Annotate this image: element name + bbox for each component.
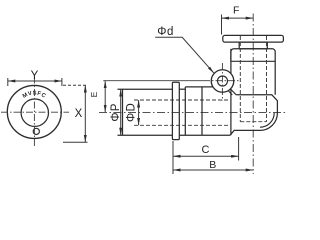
svg-text:C: C: [202, 144, 210, 156]
node left-view small hole: [33, 128, 39, 134]
wire hidden bore line bottom: [134, 124, 230, 126]
component orifice circle (Phi d): [211, 70, 234, 93]
dimension F: [222, 15, 254, 35]
component release collar (vertical port): [223, 35, 284, 42]
svg-text:ΦP: ΦP: [110, 102, 122, 121]
svg-text:B: B: [209, 159, 216, 171]
component release flange (horizontal port): [172, 82, 179, 139]
wire tube left end face: [122, 89, 124, 135]
node elbow block outline: [230, 130, 260, 135]
dimension E: [104, 81, 106, 113]
wire body seam: [201, 87, 203, 135]
node left-view horizontal centerline: [1, 111, 69, 113]
dimension PhiD: [138, 100, 140, 125]
node vertical port centerline: [252, 14, 254, 175]
wire block left edge lower: [230, 89, 232, 135]
node brand text MVSFC curved: [18, 91, 50, 106]
dimension PhiP: [120, 89, 122, 135]
node orifice circle horizontal centerline: [203, 80, 240, 82]
dimension Y: [8, 78, 62, 86]
svg-text:Φd: Φd: [157, 26, 174, 38]
node chamfer band under circle: [231, 89, 237, 95]
wire E top extension line: [103, 80, 203, 82]
wire block left edge upper: [230, 49, 232, 74]
wire tube bottom edge / body bottom edge: [118, 134, 173, 136]
node orifice circle vertical centerline: [221, 63, 223, 101]
svg-text:E: E: [89, 91, 99, 97]
wire hidden seat line: [240, 121, 266, 123]
component collet neck: [239, 42, 267, 49]
dimension C: [173, 137, 239, 174]
node elbow inner arc: [260, 113, 274, 127]
svg-text:ΦD: ΦD: [125, 102, 137, 122]
wire body left edge: [184, 87, 186, 135]
svg-text:F: F: [233, 5, 239, 17]
dimension X: [63, 85, 88, 142]
wire body step line: [231, 60, 275, 62]
node left-view outer face circle: [7, 85, 61, 138]
svg-text:X: X: [75, 108, 83, 120]
node left-view inner bore circle: [21, 99, 48, 126]
wire tube top edge: [118, 88, 173, 90]
wire hidden collet line left: [239, 36, 241, 122]
node main horizontal centerline: [99, 111, 286, 113]
wire body top edge: [185, 86, 213, 88]
wire hidden collet line right: [266, 36, 268, 122]
svg-text:Y: Y: [31, 70, 39, 82]
node left-view vertical centerline: [33, 77, 35, 147]
component vertical port body: [231, 49, 275, 95]
wire hidden bore line top: [134, 99, 230, 101]
dimension B: [173, 169, 253, 171]
